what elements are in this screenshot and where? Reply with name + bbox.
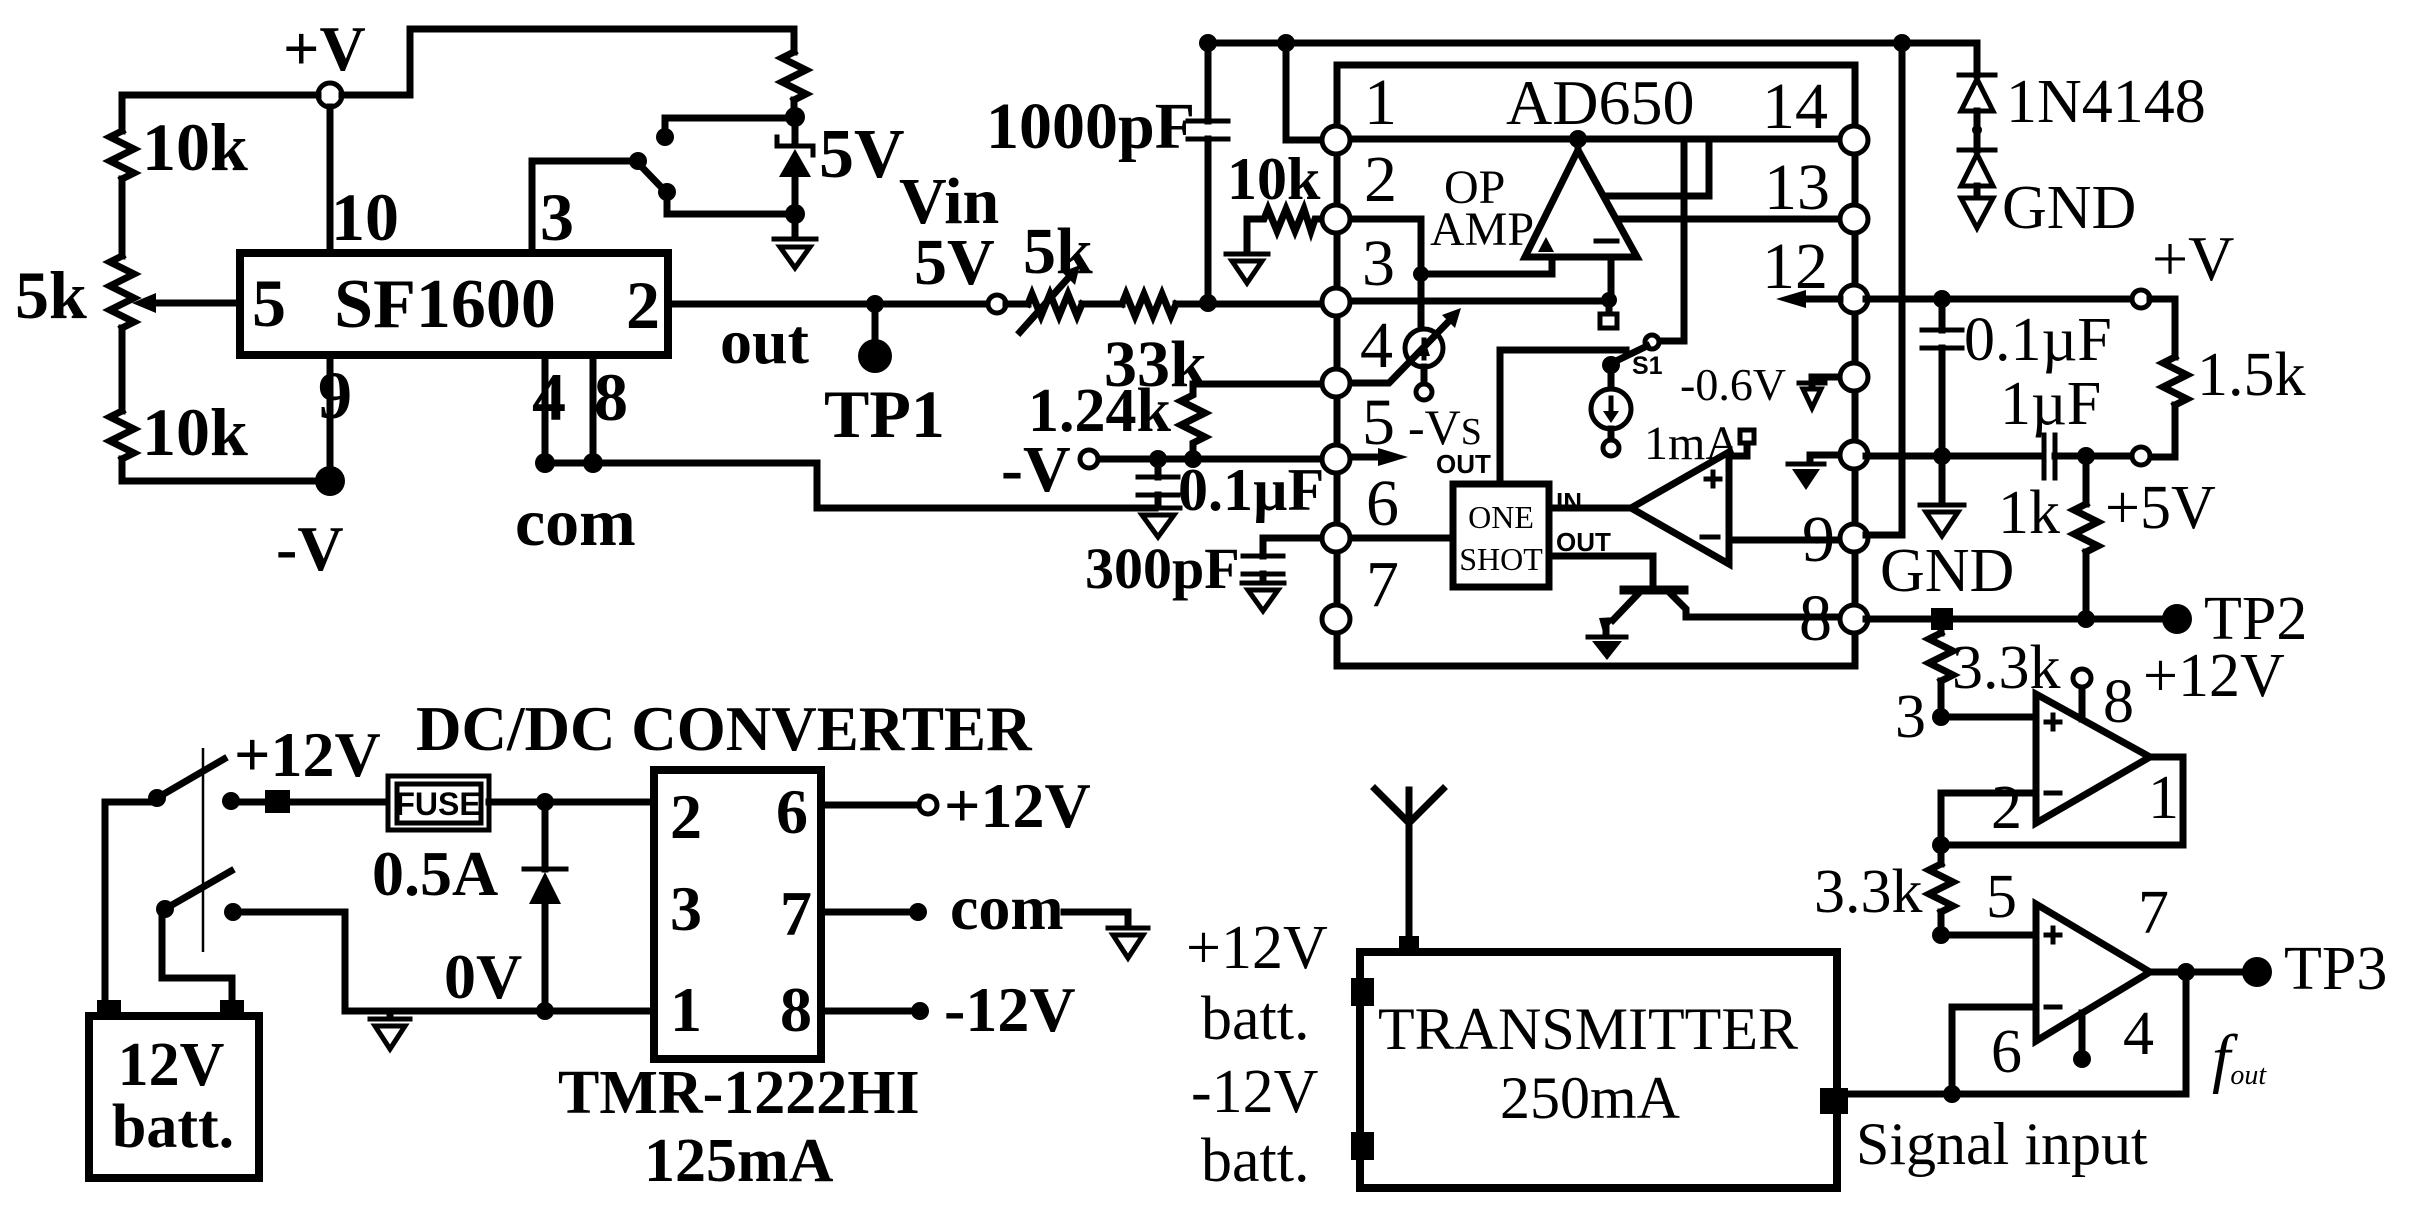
testpoint TP3 bbox=[2242, 957, 2272, 987]
wire com to ground bbox=[1064, 912, 1128, 926]
node pin 4 terminal (comp B) bbox=[2073, 1050, 2091, 1068]
svg-text:TP1: TP1 bbox=[824, 376, 945, 452]
wire converter pin 8 output bbox=[821, 1008, 911, 1015]
svg-text:com: com bbox=[515, 484, 636, 560]
svg-text:+V: +V bbox=[283, 13, 366, 84]
comparator (internal) bbox=[1631, 452, 1729, 564]
transmitter block bbox=[1360, 952, 1837, 1188]
svg-text:2: 2 bbox=[1364, 143, 1397, 216]
wire 33k to AD650 pin 3 bbox=[1176, 301, 1324, 308]
svg-text:3.3k: 3.3k bbox=[1952, 634, 2061, 702]
wire lower switch to 0V line bbox=[242, 912, 345, 1011]
svg-text:5: 5 bbox=[1362, 386, 1395, 459]
pin 4 bbox=[1322, 369, 1350, 397]
svg-text:250mA: 250mA bbox=[1500, 1065, 1680, 1131]
resistor series (zener feed) bbox=[782, 52, 806, 100]
capacitor 0.1uF (right) bbox=[1922, 299, 1962, 457]
wire riser down to pin 9 bbox=[1866, 43, 1902, 535]
switch range: pole dot bbox=[629, 152, 647, 170]
fuse 0.5A bbox=[388, 776, 489, 830]
wire comp A pin 8 supply stub bbox=[2079, 687, 2086, 719]
comparator + reference stub bbox=[1729, 430, 1754, 456]
capacitor 1uF (series) bbox=[2044, 435, 2132, 478]
svg-text:13: 13 bbox=[1764, 151, 1830, 224]
node rail/1000pF bbox=[1199, 34, 1217, 52]
resistor 10k lower bbox=[110, 411, 134, 459]
potentiometer 5k horizontal bbox=[1020, 265, 1082, 332]
svg-text:Signal input: Signal input bbox=[1856, 1111, 2148, 1177]
svg-text:0.1µF: 0.1µF bbox=[1178, 457, 1324, 523]
svg-text:-12V: -12V bbox=[944, 974, 1076, 1045]
wire left rail bottom to -V node bbox=[122, 459, 318, 481]
pin 9 bbox=[1840, 524, 1868, 552]
node com terminal bbox=[909, 903, 927, 921]
svg-text:TP3: TP3 bbox=[2284, 935, 2387, 1003]
terminal -12V batt square bbox=[1351, 1132, 1374, 1160]
resistor 10k upper bbox=[110, 131, 134, 179]
ground below 300pF bbox=[1242, 583, 1284, 611]
wire +V circle to top rail bbox=[342, 29, 794, 95]
svg-text:125mA: 125mA bbox=[644, 1127, 834, 1195]
wire op-amp - input drop bbox=[1608, 257, 1615, 300]
wire SF1600 pin 3 riser bbox=[532, 161, 630, 253]
wire comparator output to one-shot IN bbox=[1549, 505, 1631, 512]
svg-text:ONE: ONE bbox=[1468, 499, 1534, 535]
reference -0.6V marker at pin 11 bbox=[1799, 377, 1842, 408]
svg-text:3: 3 bbox=[670, 873, 702, 944]
svg-text:+12V: +12V bbox=[1186, 914, 1328, 982]
svg-text:9: 9 bbox=[318, 357, 352, 433]
svg-text:1k: 1k bbox=[1998, 479, 2060, 547]
svg-text:10k: 10k bbox=[142, 109, 248, 185]
svg-text:SHOT: SHOT bbox=[1459, 541, 1543, 577]
pin 3 bbox=[1322, 288, 1350, 316]
ground below 0.1uF bbox=[1136, 508, 1180, 537]
pin 5 bbox=[1322, 445, 1350, 473]
wire left rail upper segment bbox=[119, 95, 126, 131]
svg-text:OUT: OUT bbox=[1436, 449, 1491, 479]
testpoint TP1 bbox=[858, 304, 892, 373]
wire to + input stub bbox=[1421, 258, 1552, 274]
svg-text:SF1600: SF1600 bbox=[334, 266, 556, 343]
resistor 3.3k upper bbox=[1929, 630, 1953, 717]
wire pin14 jog to op-amp inverting side bbox=[1602, 139, 1709, 196]
pin 12 bbox=[1840, 285, 1868, 313]
svg-text:TRANSMITTER: TRANSMITTER bbox=[1378, 996, 1798, 1062]
svg-text:10k: 10k bbox=[142, 394, 248, 470]
node +5V open terminal bbox=[2132, 447, 2150, 465]
resistor 33k bbox=[1122, 294, 1176, 316]
IC AD650 outline bbox=[1337, 65, 1855, 666]
wire comp B - input bbox=[1952, 1007, 2036, 1094]
wire top rail down to series resistor bbox=[791, 29, 798, 52]
svg-text:12: 12 bbox=[1762, 230, 1828, 303]
wire riser to AD650 pin 1 bbox=[1286, 43, 1324, 140]
diode 1N4148 upper bbox=[1959, 75, 1995, 150]
node top rail / pin9 riser bbox=[1893, 34, 1911, 52]
capacitor 1000pF bbox=[1188, 46, 1228, 298]
one-shot block bbox=[1453, 484, 1549, 587]
svg-text:6: 6 bbox=[776, 776, 808, 847]
svg-text:-V: -V bbox=[276, 513, 344, 584]
wiper arrowhead bbox=[132, 293, 156, 313]
svg-text:4: 4 bbox=[2123, 1000, 2154, 1068]
op-amp U1 integrator bbox=[1525, 141, 1637, 257]
node +12V open terminal (comp A) bbox=[2073, 669, 2091, 687]
ground on 0V line bbox=[370, 1011, 410, 1049]
wire 10k to pot bbox=[119, 179, 126, 256]
arrow -Vs at pin 5 bbox=[1352, 448, 1408, 466]
pin 11 bbox=[1840, 363, 1868, 391]
svg-text:FUSE: FUSE bbox=[395, 786, 480, 822]
pin 10 bbox=[1840, 441, 1868, 469]
node 1000pF junction bbox=[1199, 294, 1217, 312]
wire battery + to upper switch bbox=[105, 802, 157, 1001]
svg-text:+V: +V bbox=[2152, 223, 2234, 294]
svg-text:TMR-1222HI: TMR-1222HI bbox=[558, 1059, 920, 1127]
pin 13 bbox=[1840, 205, 1868, 233]
wire comparator to pin 9 bbox=[1729, 537, 1842, 544]
node +V supply terminal bbox=[318, 83, 342, 107]
node +5V junction bbox=[2077, 447, 2095, 465]
svg-text:8: 8 bbox=[1799, 582, 1832, 655]
svg-text:2: 2 bbox=[1991, 774, 2022, 842]
capacitor 0.1uF (-V decoupling) bbox=[1138, 459, 1178, 506]
svg-text:GND: GND bbox=[2002, 174, 2136, 242]
current source 1mA bbox=[1591, 365, 1631, 456]
svg-text:1N4148: 1N4148 bbox=[2006, 68, 2206, 136]
svg-text:3: 3 bbox=[1362, 227, 1395, 300]
node com pin8 bbox=[583, 453, 603, 473]
node comp B output junction bbox=[2177, 963, 2195, 981]
wire S1 feed riser bbox=[1658, 139, 1684, 341]
wire pin13 to op-amp inverting side bbox=[1614, 216, 1842, 223]
node open terminal on Vin line bbox=[988, 295, 1006, 313]
svg-text:com: com bbox=[950, 872, 1064, 943]
node 1k junction bbox=[2077, 610, 2095, 628]
wire comp B pin 4 stub bbox=[2079, 1013, 2086, 1050]
node comp B feedback junction bbox=[1943, 1085, 1961, 1103]
wire comp A - input bbox=[1941, 793, 2036, 845]
wire +V corner to 1.5k bbox=[2150, 299, 2175, 357]
svg-text:1.5k: 1.5k bbox=[2197, 341, 2306, 409]
svg-text:4: 4 bbox=[532, 359, 566, 435]
resistor 1.5k bbox=[2163, 357, 2187, 405]
antenna bbox=[1375, 789, 1443, 948]
node pin2/pin4 branch bbox=[1413, 266, 1429, 282]
svg-text:0.1µF: 0.1µF bbox=[1964, 306, 2112, 374]
antenna terminal square bbox=[1399, 936, 1419, 952]
wire rail corner to diode chain bbox=[1974, 43, 1981, 75]
node -V terminal bbox=[315, 466, 345, 496]
wire SF1600 pin 4 bbox=[542, 355, 549, 456]
svg-text:9: 9 bbox=[1802, 503, 1835, 576]
wire -V feed line bbox=[1098, 456, 1324, 463]
resistor 3.3k lower bbox=[1929, 845, 1953, 935]
ground below 10k bbox=[1226, 254, 1268, 283]
pin 6 bbox=[1322, 524, 1350, 552]
switch range: upper contact bbox=[656, 128, 674, 146]
svg-text:0.5A: 0.5A bbox=[372, 838, 498, 909]
ground below diode chain bbox=[1961, 198, 1993, 228]
svg-text:5: 5 bbox=[252, 265, 286, 341]
wire pin 8 to TP2 bbox=[1866, 616, 2162, 623]
wire internal pin1 to pin14 bus bbox=[1348, 136, 1842, 143]
svg-text:6: 6 bbox=[1366, 467, 1399, 540]
svg-text:8: 8 bbox=[2103, 668, 2134, 736]
resistor 1.24k bbox=[1181, 384, 1322, 459]
svg-text:2: 2 bbox=[670, 781, 702, 852]
node rail/pin1 riser bbox=[1277, 34, 1295, 52]
wire converter pin 6 output bbox=[821, 802, 919, 809]
switch battery lower bbox=[156, 871, 242, 921]
svg-text:7: 7 bbox=[780, 878, 812, 949]
svg-text:8: 8 bbox=[594, 359, 628, 435]
svg-text:+5V: +5V bbox=[2105, 474, 2216, 542]
node com pin4 bbox=[535, 453, 555, 473]
svg-text:OUT: OUT bbox=[1556, 527, 1611, 557]
svg-text:8: 8 bbox=[780, 974, 812, 1045]
svg-text:GND: GND bbox=[1880, 537, 2014, 605]
wire AD650 pin 2 to op-amp + input bbox=[1348, 219, 1421, 274]
wire terminal to 5k pot bbox=[1006, 301, 1028, 308]
trimmer (pin 4 gain) bbox=[1405, 274, 1443, 400]
wire pin 6 to one shot bbox=[1348, 535, 1453, 542]
wire 5k to 33k bbox=[1082, 301, 1122, 308]
wire +V circle to left rail bbox=[122, 92, 318, 99]
node pin12 decoupling junction bbox=[1933, 290, 1951, 308]
node comp A feedback junction bbox=[1932, 836, 1950, 854]
wire pin 12 internal arrow bbox=[1776, 290, 1840, 308]
node zener anode junction bbox=[785, 204, 805, 224]
wire AD650 pin 3 internal bbox=[1348, 298, 1604, 305]
capacitor 300pF bbox=[1243, 538, 1324, 581]
wire pin 10 to 1uF line bbox=[1866, 453, 2040, 460]
terminal square after switch bbox=[265, 790, 290, 813]
svg-text:1: 1 bbox=[1364, 66, 1397, 139]
diode reverse protection bbox=[524, 802, 566, 1011]
svg-text:batt.: batt. bbox=[1201, 1127, 1309, 1195]
switch battery gang link bbox=[202, 748, 205, 952]
node 1uF line junction bbox=[1933, 447, 1951, 465]
svg-text:3: 3 bbox=[540, 179, 574, 255]
terminal +12V batt square bbox=[1351, 978, 1374, 1006]
svg-text:5k: 5k bbox=[1023, 215, 1093, 288]
ground below 1uF line bbox=[1920, 456, 1964, 536]
svg-text:-V: -V bbox=[1001, 433, 1071, 506]
wire pot to lower 10k bbox=[119, 328, 126, 411]
node diode junction bottom bbox=[536, 1002, 554, 1020]
node TP1 tap bbox=[866, 295, 884, 313]
wire converter pin 7 output bbox=[821, 909, 910, 916]
wire 1.5k to +5V line bbox=[2150, 405, 2175, 457]
svg-text:14: 14 bbox=[1762, 70, 1828, 143]
wire resistor to 5V node bbox=[791, 100, 798, 117]
IC DC/DC converter TMR-1222HI bbox=[654, 770, 821, 1059]
svg-text:2: 2 bbox=[626, 267, 660, 343]
testpoint TP2 bbox=[2162, 604, 2192, 634]
wire one-shot lower OUT to transistor base bbox=[1549, 556, 1653, 588]
svg-text:3: 3 bbox=[1895, 683, 1926, 751]
svg-text:5V: 5V bbox=[819, 116, 905, 193]
switch range: lever bbox=[638, 163, 664, 190]
svg-text:3.3k: 3.3k bbox=[1814, 858, 1923, 926]
terminal signal input square bbox=[1820, 1088, 1848, 1114]
svg-text:7: 7 bbox=[2138, 879, 2169, 947]
svg-text:+12V: +12V bbox=[944, 770, 1091, 841]
node -V open terminal bbox=[1080, 450, 1098, 468]
wire fuse to converter pin 2 bbox=[489, 799, 654, 806]
svg-text:out: out bbox=[720, 306, 810, 377]
node 5V junction bbox=[785, 107, 805, 127]
svg-text:DC/DC CONVERTER: DC/DC CONVERTER bbox=[416, 694, 1033, 764]
IC SF1600 bbox=[240, 253, 668, 355]
pin 8 bbox=[1840, 605, 1868, 633]
trimmer arrowhead bbox=[1442, 308, 1461, 328]
wire upper contact to 5V node bbox=[665, 118, 790, 135]
svg-text:+12V: +12V bbox=[2143, 642, 2285, 710]
node diode junction top bbox=[536, 793, 554, 811]
svg-text:1: 1 bbox=[670, 974, 702, 1045]
switch battery upper bbox=[148, 759, 240, 810]
pin 1 bbox=[1322, 126, 1350, 154]
svg-text:5V: 5V bbox=[914, 226, 995, 299]
wire pot wiper from SF1600 pin 5 bbox=[154, 300, 240, 307]
wire com run to -V decoupling ground bbox=[545, 463, 1155, 508]
svg-text:-0.6V: -0.6V bbox=[1680, 359, 1786, 410]
wire upper switch to fuse bbox=[240, 799, 266, 806]
node 1.24k junction bbox=[1184, 450, 1202, 468]
diode 1N4148 lower bbox=[1959, 150, 1995, 198]
svg-text:4: 4 bbox=[1360, 309, 1393, 382]
svg-text:300pF: 300pF bbox=[1085, 536, 1240, 601]
wire comp B feedback loop bbox=[1848, 972, 2186, 1094]
wire pin 12 to +V bbox=[1866, 296, 2132, 303]
svg-text:1µF: 1µF bbox=[2000, 370, 2101, 438]
node 0.1uF junction bbox=[1149, 450, 1167, 468]
battery 12V bbox=[89, 1000, 259, 1178]
svg-text:0V: 0V bbox=[444, 941, 522, 1012]
op-amp comparator B bbox=[2036, 904, 2150, 1041]
wire SF1600 pin 10 to +V bbox=[327, 107, 334, 253]
svg-text:-12V: -12V bbox=[1191, 1058, 1319, 1126]
svg-text:6: 6 bbox=[1991, 1018, 2022, 1086]
svg-text:S1: S1 bbox=[1632, 352, 1663, 380]
wire top rail AD650 section bbox=[1208, 40, 1977, 47]
wire SF1600 pin 8 bbox=[590, 355, 597, 456]
ground marker at pin 10 bbox=[1788, 455, 1842, 490]
svg-text:1: 1 bbox=[2148, 764, 2179, 832]
node +12V open terminal (converter) bbox=[919, 796, 937, 814]
svg-text:10: 10 bbox=[331, 179, 399, 255]
pin 2 bbox=[1322, 205, 1350, 233]
ground at com bbox=[1108, 928, 1148, 958]
svg-text:12V: 12V bbox=[118, 1031, 225, 1099]
node -12V terminal bbox=[911, 1002, 929, 1020]
wire 0V line to converter pin 1 bbox=[345, 1008, 654, 1015]
wire AD650 pin 4 to trimmer arrow bbox=[1348, 318, 1452, 383]
wire SF1600 pin 9 bbox=[327, 355, 334, 470]
svg-text:7: 7 bbox=[1366, 548, 1399, 621]
wire Vin line from SF1600 pin 2 bbox=[668, 301, 988, 308]
wire lower contact to zener anode bbox=[667, 194, 790, 214]
wire battery - to lower switch bbox=[162, 912, 232, 1001]
node GND square junction bbox=[1931, 608, 1953, 630]
switch range: lower contact bbox=[658, 183, 676, 201]
node summing junction bbox=[1601, 292, 1617, 308]
wire one-shot top OUT to S1 bbox=[1500, 350, 1626, 484]
ground at transistor emitter bbox=[1588, 637, 1626, 660]
potentiometer 5k vertical bbox=[110, 256, 134, 328]
svg-text:AMP: AMP bbox=[1430, 203, 1534, 256]
node op-amp output junction bbox=[1569, 130, 1587, 148]
svg-text:5k: 5k bbox=[15, 257, 87, 333]
pad below summing junction bbox=[1600, 300, 1617, 328]
ground below zener bbox=[774, 214, 816, 268]
switch S1 bbox=[1602, 335, 1659, 374]
wire to comp A + input bbox=[1941, 714, 2036, 721]
resistor 10k (pin2 bias) bbox=[1247, 209, 1324, 252]
svg-text:10k: 10k bbox=[1227, 146, 1321, 212]
wire comp B output bbox=[2150, 969, 2242, 976]
op-amp comparator A bbox=[2036, 694, 2150, 823]
pin 14 bbox=[1840, 126, 1868, 154]
svg-text:1000pF: 1000pF bbox=[986, 90, 1195, 163]
node +V open terminal bbox=[2132, 290, 2150, 308]
wire to comp B + input bbox=[1941, 932, 2036, 939]
transistor Q1 bbox=[1599, 590, 1842, 636]
wire square to fuse bbox=[290, 799, 388, 806]
diode zener 5V bbox=[777, 117, 813, 214]
wire comp A output feedback loop bbox=[1941, 757, 2183, 845]
svg-text:batt.: batt. bbox=[1201, 985, 1309, 1053]
node comparator A + input bbox=[1932, 708, 1950, 726]
resistor 1k bbox=[2074, 456, 2098, 619]
svg-text:5: 5 bbox=[1986, 863, 2017, 931]
svg-text:AD650: AD650 bbox=[1506, 67, 1694, 138]
svg-text:batt.: batt. bbox=[112, 1093, 234, 1161]
svg-text:+12V: +12V bbox=[234, 719, 381, 790]
node comp B + input bbox=[1932, 926, 1950, 944]
svg-text:IN: IN bbox=[1556, 487, 1582, 517]
pin 7 bbox=[1322, 605, 1350, 633]
